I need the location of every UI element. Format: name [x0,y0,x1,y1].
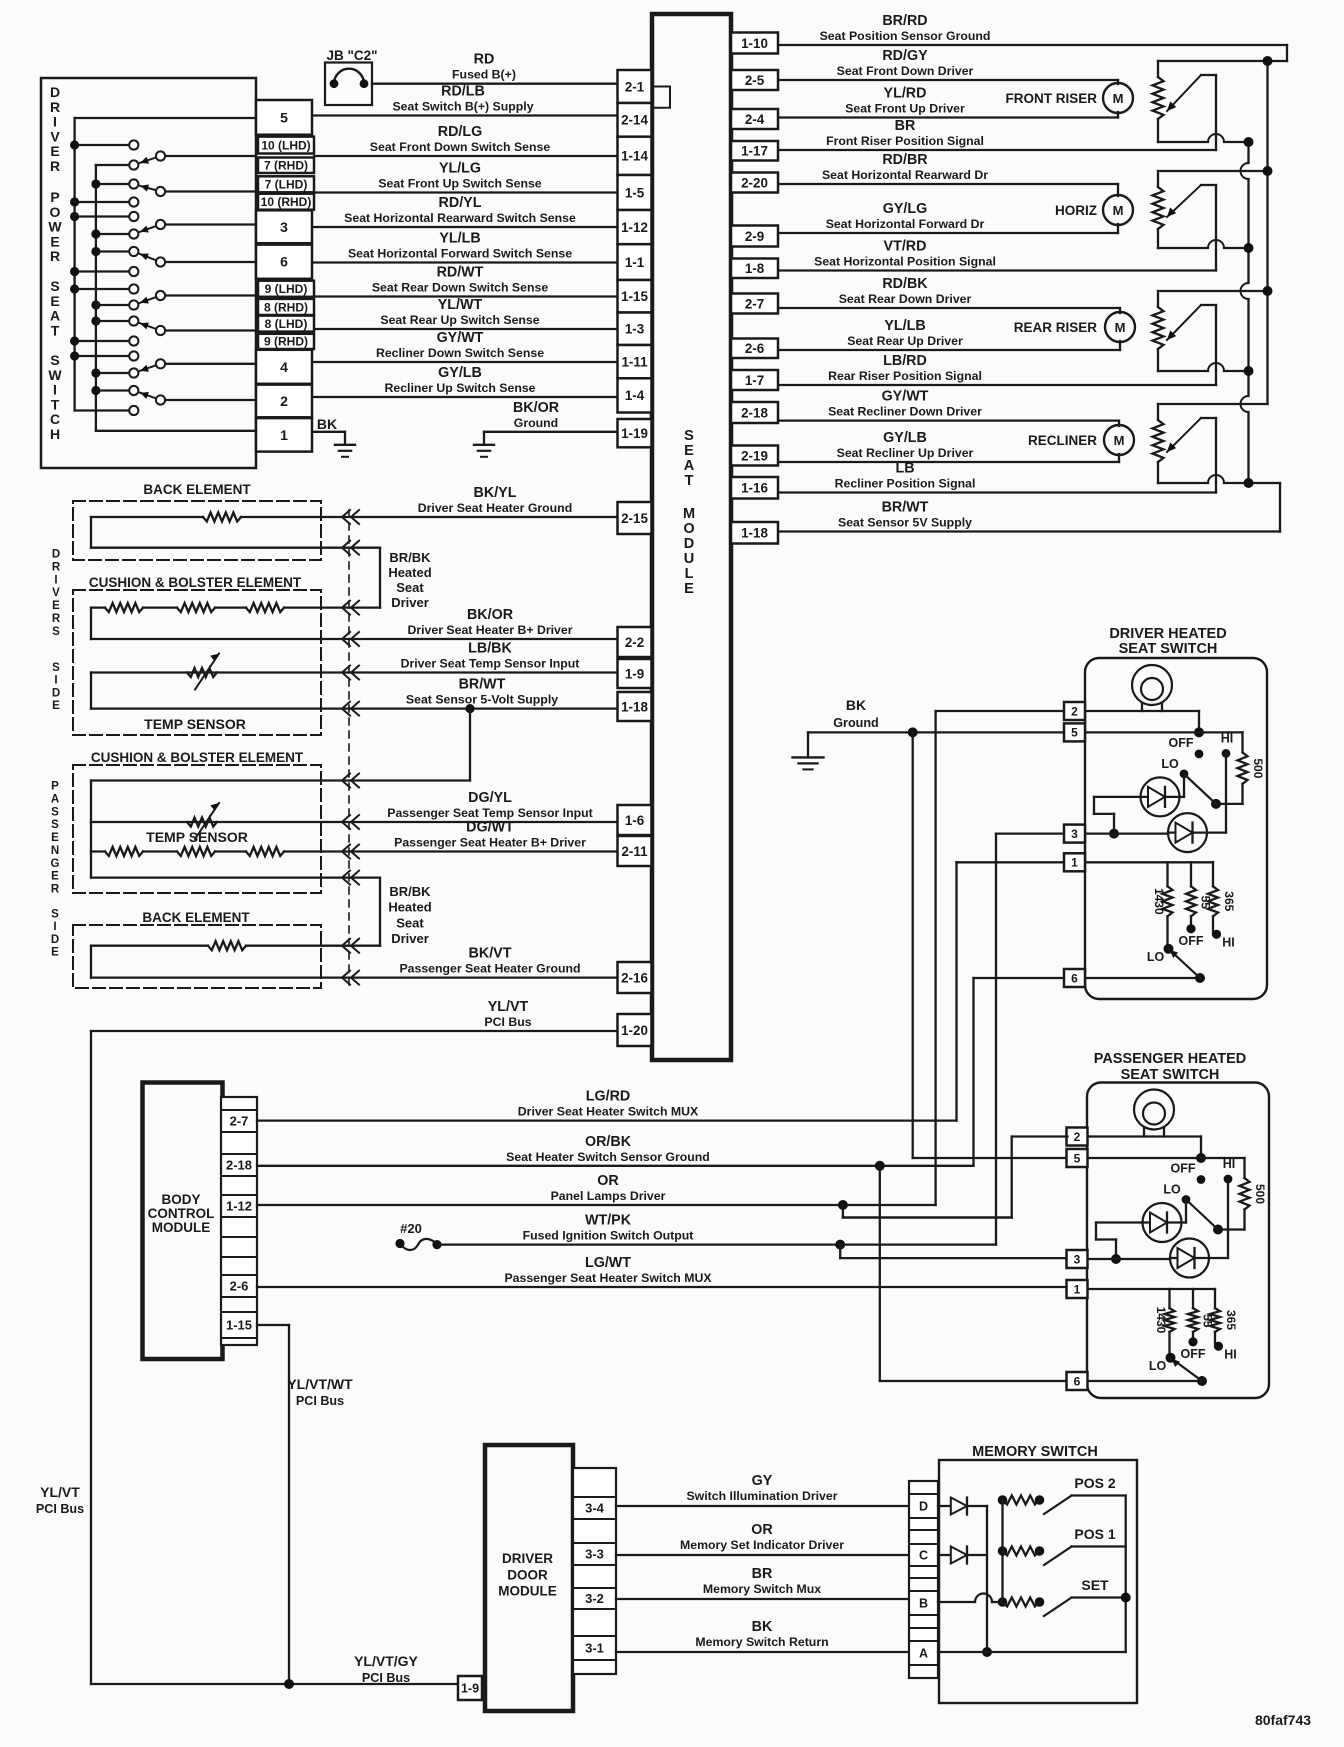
svg-text:TEMP SENSOR: TEMP SENSOR [144,716,246,732]
svg-text:SEAT SWITCH: SEAT SWITCH [1119,641,1218,657]
svg-text:1-16: 1-16 [741,481,768,496]
svg-text:Seat Sensor 5-Volt Supply: Seat Sensor 5-Volt Supply [406,693,558,707]
svg-text:Seat Horizontal Rearward Switc: Seat Horizontal Rearward Switch Sense [344,211,576,225]
svg-text:2-14: 2-14 [621,113,648,128]
svg-text:LB/BK: LB/BK [468,641,512,657]
svg-text:2-6: 2-6 [745,341,764,356]
svg-text:YL/LB: YL/LB [884,318,925,334]
svg-text:Passenger Seat Temp Sensor Inp: Passenger Seat Temp Sensor Input [387,806,592,820]
svg-text:OFF: OFF [1181,1347,1206,1361]
svg-text:Driver Seat Heater B+ Driver: Driver Seat Heater B+ Driver [407,623,572,637]
svg-text:Seat Horizontal Rearward Dr: Seat Horizontal Rearward Dr [822,168,988,182]
svg-text:2-16: 2-16 [621,970,648,985]
svg-text:2-4: 2-4 [745,112,765,127]
svg-text:PASSENGER HEATED: PASSENGER HEATED [1094,1051,1247,1067]
svg-text:Seat Horizontal Position Signa: Seat Horizontal Position Signal [814,255,996,269]
svg-text:80faf743: 80faf743 [1255,1712,1311,1728]
svg-text:1-15: 1-15 [226,1318,252,1333]
svg-text:E: E [684,581,694,597]
svg-text:Panel Lamps Driver: Panel Lamps Driver [551,1189,666,1203]
svg-text:2-7: 2-7 [230,1114,249,1129]
svg-text:1-10: 1-10 [741,36,768,51]
svg-text:RD/BK: RD/BK [882,276,928,292]
svg-text:3-1: 3-1 [585,1641,604,1656]
svg-text:A: A [51,793,59,805]
svg-text:RD/LG: RD/LG [438,124,482,140]
svg-text:LO: LO [1149,1359,1167,1373]
svg-text:GY/LG: GY/LG [883,201,927,217]
svg-text:T: T [685,473,694,489]
svg-text:MODULE: MODULE [152,1220,211,1235]
svg-text:JB "C2": JB "C2" [326,48,377,63]
svg-text:YL/LB: YL/LB [439,231,480,247]
svg-text:HI: HI [1223,1157,1236,1171]
svg-text:D: D [52,549,60,561]
svg-text:R: R [50,248,60,264]
svg-text:RD/WT: RD/WT [437,265,484,281]
svg-text:PCI Bus: PCI Bus [484,1015,531,1029]
svg-text:6: 6 [1071,971,1078,985]
svg-text:BR/WT: BR/WT [882,500,929,516]
svg-text:Memory Switch Return: Memory Switch Return [695,1635,828,1649]
svg-text:SEAT SWITCH: SEAT SWITCH [1121,1067,1220,1083]
svg-text:I: I [53,114,57,130]
svg-text:2-18: 2-18 [741,405,768,420]
svg-text:Seat Position Sensor Ground: Seat Position Sensor Ground [820,29,991,43]
svg-text:Fused B(+): Fused B(+) [452,68,516,82]
svg-text:PCI Bus: PCI Bus [36,1502,84,1516]
svg-text:2-5: 2-5 [745,73,765,88]
svg-text:Seat Rear Down Switch Sense: Seat Rear Down Switch Sense [372,281,548,295]
svg-text:A: A [50,308,60,324]
svg-text:Seat Recliner Up Driver: Seat Recliner Up Driver [837,446,974,460]
svg-text:2-2: 2-2 [625,635,644,650]
svg-text:C: C [50,411,60,427]
svg-text:2-9: 2-9 [745,229,764,244]
svg-text:PCI Bus: PCI Bus [296,1394,344,1408]
svg-text:DRIVER HEATED: DRIVER HEATED [1109,626,1226,642]
svg-text:R: R [50,99,60,115]
svg-text:O: O [50,204,61,220]
svg-text:E: E [50,233,59,249]
svg-text:S: S [51,819,59,831]
svg-text:Driver: Driver [391,595,429,610]
svg-text:M: M [1115,320,1126,335]
svg-text:10 (RHD): 10 (RHD) [261,195,312,209]
svg-text:S: S [50,278,59,294]
svg-text:YL/RD: YL/RD [884,86,927,102]
svg-text:Seat Front Down Driver: Seat Front Down Driver [837,64,974,78]
svg-text:YL/LG: YL/LG [439,161,481,177]
svg-text:E: E [52,600,60,612]
svg-text:W: W [48,367,62,383]
svg-text:YL/VT/WT: YL/VT/WT [287,1376,353,1392]
svg-text:2-18: 2-18 [226,1158,252,1173]
svg-text:HI: HI [1221,731,1234,745]
svg-text:3: 3 [280,219,288,235]
svg-text:V: V [50,128,60,144]
svg-text:S: S [51,909,59,921]
svg-text:Memory Set Indicator Driver: Memory Set Indicator Driver [680,1538,844,1552]
svg-text:365: 365 [1224,1310,1238,1330]
svg-text:6: 6 [1074,1374,1081,1388]
svg-text:O: O [683,521,694,537]
svg-text:D: D [50,84,60,100]
svg-text:LG/RD: LG/RD [586,1089,630,1105]
svg-text:1-5: 1-5 [625,185,645,200]
svg-text:BK/OR: BK/OR [467,607,514,623]
svg-text:D: D [51,934,59,946]
svg-text:1-11: 1-11 [621,354,648,369]
svg-text:LO: LO [1147,950,1165,964]
svg-text:M: M [683,506,695,522]
svg-text:1-18: 1-18 [621,699,648,714]
svg-text:1-15: 1-15 [621,289,648,304]
svg-text:RD: RD [474,52,495,68]
svg-text:BR: BR [752,1566,773,1582]
svg-text:8 (LHD): 8 (LHD) [265,317,308,331]
svg-text:Seat: Seat [396,580,424,595]
svg-text:1-19: 1-19 [621,426,648,441]
svg-text:YL/WT: YL/WT [438,297,483,313]
svg-text:BK/VT: BK/VT [469,946,512,962]
svg-text:YL/VT/GY: YL/VT/GY [354,1653,418,1669]
svg-text:BACK ELEMENT: BACK ELEMENT [143,482,251,497]
svg-text:3-4: 3-4 [585,1501,605,1516]
svg-text:1-12: 1-12 [621,220,648,235]
svg-text:BR/BK: BR/BK [389,550,431,565]
svg-text:I: I [54,574,57,586]
svg-text:1430: 1430 [1154,1307,1168,1334]
svg-text:I: I [53,382,57,398]
svg-text:E: E [51,947,59,959]
svg-text:Memory Switch Mux: Memory Switch Mux [703,1582,821,1596]
svg-text:R: R [51,884,60,896]
svg-text:CUSHION & BOLSTER ELEMENT: CUSHION & BOLSTER ELEMENT [91,750,304,765]
svg-text:POS 2: POS 2 [1074,1475,1115,1491]
svg-text:1-1: 1-1 [625,255,645,270]
svg-text:OFF: OFF [1171,1162,1196,1176]
svg-text:BR/WT: BR/WT [459,677,506,693]
svg-text:Passenger Seat Heater B+ Drive: Passenger Seat Heater B+ Driver [394,836,586,850]
svg-text:R: R [52,613,61,625]
svg-text:S: S [684,428,694,444]
svg-text:CUSHION & BOLSTER ELEMENT: CUSHION & BOLSTER ELEMENT [89,575,302,590]
svg-text:T: T [51,322,60,338]
svg-text:A: A [684,458,695,474]
svg-text:Recliner Up Switch Sense: Recliner Up Switch Sense [384,381,535,395]
svg-text:BACK ELEMENT: BACK ELEMENT [142,910,250,925]
svg-text:RD/BR: RD/BR [882,152,928,168]
svg-text:Driver Seat Temp Sensor Input: Driver Seat Temp Sensor Input [401,657,580,671]
svg-text:P: P [50,189,59,205]
svg-text:2-19: 2-19 [741,448,768,463]
svg-text:4: 4 [280,359,288,375]
svg-text:Seat Rear Up Switch Sense: Seat Rear Up Switch Sense [380,313,539,327]
svg-text:1: 1 [1074,1282,1081,1296]
svg-text:WT/PK: WT/PK [585,1213,632,1229]
svg-text:5: 5 [1071,726,1078,740]
svg-text:Front Riser Position Signal: Front Riser Position Signal [826,134,984,148]
svg-text:Heated: Heated [388,900,431,915]
svg-text:RD/GY: RD/GY [882,48,928,64]
svg-text:REAR RISER: REAR RISER [1014,320,1098,335]
svg-text:Seat Front Up Switch Sense: Seat Front Up Switch Sense [378,177,541,191]
svg-text:2-11: 2-11 [621,844,648,859]
svg-text:1-12: 1-12 [226,1199,252,1214]
svg-text:3: 3 [1071,827,1078,841]
svg-text:R: R [52,561,61,573]
svg-text:2-6: 2-6 [230,1279,249,1294]
svg-text:POS 1: POS 1 [1074,1526,1115,1542]
svg-text:#20: #20 [400,1221,422,1236]
svg-text:Driver: Driver [391,931,429,946]
svg-text:2: 2 [280,393,288,409]
svg-text:I: I [53,921,56,933]
svg-text:Seat Front Up Driver: Seat Front Up Driver [845,102,965,116]
svg-text:7 (RHD): 7 (RHD) [264,159,308,173]
svg-text:HORIZ: HORIZ [1055,203,1097,218]
svg-text:L: L [685,566,694,582]
svg-text:BK: BK [846,697,866,713]
svg-text:BK/YL: BK/YL [474,485,517,501]
svg-text:9 (LHD): 9 (LHD) [265,282,308,296]
svg-text:Rear Riser Position Signal: Rear Riser Position Signal [828,369,982,383]
svg-text:M: M [1114,433,1125,448]
svg-text:Fused Ignition Switch Output: Fused Ignition Switch Output [523,1229,694,1243]
svg-text:Seat Horizontal Forward Switch: Seat Horizontal Forward Switch Sense [348,247,572,261]
svg-text:1430: 1430 [1152,888,1166,915]
svg-text:365: 365 [1222,891,1236,911]
svg-text:LB/RD: LB/RD [883,353,927,369]
svg-text:DOOR: DOOR [507,1568,548,1583]
svg-text:OFF: OFF [1169,736,1194,750]
svg-text:Driver Seat Heater Ground: Driver Seat Heater Ground [418,501,572,515]
svg-text:Seat Switch B(+) Supply: Seat Switch B(+) Supply [392,100,533,114]
svg-text:D: D [684,536,694,552]
svg-text:U: U [684,551,694,567]
svg-text:LO: LO [1163,1183,1181,1197]
svg-text:GY/WT: GY/WT [882,389,929,405]
svg-text:N: N [51,845,59,857]
svg-text:5: 5 [1074,1151,1081,1165]
svg-text:H: H [50,426,60,442]
svg-text:1: 1 [280,427,288,443]
svg-text:10 (LHD): 10 (LHD) [261,138,310,152]
svg-text:7 (LHD): 7 (LHD) [265,178,308,192]
svg-text:DG/YL: DG/YL [468,790,512,806]
svg-text:W: W [48,219,62,235]
svg-text:1-9: 1-9 [461,1682,479,1696]
svg-text:GY/LB: GY/LB [438,365,482,381]
svg-text:GY/LB: GY/LB [883,430,927,446]
svg-text:3-3: 3-3 [585,1547,604,1562]
svg-text:S: S [50,352,59,368]
svg-text:M: M [1113,203,1124,218]
svg-text:OR: OR [751,1522,773,1538]
svg-text:E: E [51,871,59,883]
svg-text:9 (RHD): 9 (RHD) [264,335,308,349]
svg-text:D: D [919,1500,928,1514]
svg-text:S: S [51,806,59,818]
svg-text:2: 2 [1071,704,1078,718]
svg-text:R: R [50,158,60,174]
svg-text:Seat Recliner Down Driver: Seat Recliner Down Driver [828,405,982,419]
svg-text:M: M [1113,91,1124,106]
svg-text:1-9: 1-9 [625,666,644,681]
svg-text:3-2: 3-2 [585,1591,604,1606]
svg-text:1-4: 1-4 [625,388,645,403]
svg-text:V: V [52,587,60,599]
svg-text:LB: LB [895,461,914,477]
svg-text:E: E [50,293,59,309]
svg-text:RD/LB: RD/LB [441,84,485,100]
svg-text:E: E [52,700,60,712]
svg-text:VT/RD: VT/RD [884,239,927,255]
svg-text:1-6: 1-6 [625,813,644,828]
svg-text:BK: BK [752,1619,773,1635]
svg-text:2-1: 2-1 [625,79,645,94]
svg-text:DRIVER: DRIVER [502,1551,553,1566]
svg-text:BK: BK [317,416,337,432]
svg-text:P: P [51,781,59,793]
svg-text:Ground: Ground [833,716,878,730]
svg-text:Seat Sensor 5V Supply: Seat Sensor 5V Supply [838,516,972,530]
svg-text:GY: GY [752,1473,773,1489]
svg-text:Seat Front Down Switch Sense: Seat Front Down Switch Sense [370,140,551,154]
svg-text:Switch Illumination Driver: Switch Illumination Driver [686,1489,837,1503]
svg-text:S: S [52,662,60,674]
svg-text:B: B [919,1597,928,1611]
svg-text:Recliner Down Switch Sense: Recliner Down Switch Sense [376,346,544,360]
svg-text:Recliner Position Signal: Recliner Position Signal [835,477,976,491]
svg-text:Seat: Seat [396,915,424,930]
svg-text:55: 55 [1199,896,1213,910]
svg-text:E: E [684,443,694,459]
svg-text:YL/VT: YL/VT [488,999,529,1015]
svg-text:OR: OR [597,1173,619,1189]
svg-text:3: 3 [1074,1252,1081,1266]
svg-text:RD/YL: RD/YL [439,195,482,211]
svg-text:LO: LO [1161,757,1179,771]
svg-text:HI: HI [1222,935,1235,949]
svg-text:G: G [51,858,60,870]
svg-text:DG/WT: DG/WT [466,820,514,836]
svg-text:BODY: BODY [161,1192,200,1207]
svg-text:RECLINER: RECLINER [1028,433,1097,448]
svg-text:Seat Horizontal Forward Dr: Seat Horizontal Forward Dr [826,217,985,231]
svg-text:OFF: OFF [1179,934,1204,948]
svg-text:Seat Heater Switch Sensor Grou: Seat Heater Switch Sensor Ground [506,1150,710,1164]
svg-text:S: S [52,626,60,638]
svg-text:MEMORY SWITCH: MEMORY SWITCH [972,1444,1098,1460]
svg-text:55: 55 [1201,1314,1215,1328]
svg-text:Seat Rear Down Driver: Seat Rear Down Driver [839,292,972,306]
svg-text:BR/RD: BR/RD [882,13,927,29]
svg-text:FRONT RISER: FRONT RISER [1005,91,1097,106]
svg-text:5: 5 [280,109,288,125]
svg-text:GY/WT: GY/WT [437,330,484,346]
svg-text:Passenger Seat Heater Switch M: Passenger Seat Heater Switch MUX [504,1271,712,1285]
svg-text:BR/BK: BR/BK [389,884,431,899]
svg-text:2: 2 [1074,1130,1081,1144]
svg-text:HI: HI [1224,1347,1237,1361]
svg-text:T: T [51,396,60,412]
svg-text:2-15: 2-15 [621,511,648,526]
svg-text:E: E [51,832,59,844]
svg-text:E: E [50,143,59,159]
svg-text:500: 500 [1253,1184,1267,1204]
svg-text:LG/WT: LG/WT [585,1255,631,1271]
svg-text:6: 6 [280,254,288,270]
svg-text:1-20: 1-20 [621,1023,648,1038]
svg-text:PCI Bus: PCI Bus [362,1671,410,1685]
svg-text:1-7: 1-7 [745,373,764,388]
svg-text:Ground: Ground [514,416,558,430]
svg-text:MODULE: MODULE [498,1584,557,1599]
svg-text:BK/OR: BK/OR [513,400,560,416]
svg-text:CONTROL: CONTROL [148,1206,215,1221]
svg-text:D: D [52,687,60,699]
svg-text:I: I [54,675,57,687]
svg-text:BR: BR [895,118,916,134]
svg-text:A: A [919,1647,928,1661]
svg-text:1-8: 1-8 [745,261,765,276]
svg-text:Driver Seat Heater Switch MUX: Driver Seat Heater Switch MUX [518,1105,699,1119]
svg-text:OR/BK: OR/BK [585,1134,632,1150]
svg-text:2-20: 2-20 [741,175,768,190]
svg-text:YL/VT: YL/VT [40,1484,80,1500]
svg-text:500: 500 [1251,758,1265,778]
svg-text:1-17: 1-17 [741,144,768,159]
svg-text:1-14: 1-14 [621,149,648,164]
svg-text:1: 1 [1071,856,1078,870]
svg-text:Seat Rear Up Driver: Seat Rear Up Driver [847,334,963,348]
svg-text:1-18: 1-18 [741,526,768,541]
svg-text:Passenger Seat Heater Ground: Passenger Seat Heater Ground [399,962,580,976]
svg-text:C: C [919,1549,928,1563]
svg-text:Heated: Heated [388,565,431,580]
svg-text:SET: SET [1081,1577,1109,1593]
svg-text:2-7: 2-7 [745,296,764,311]
svg-text:8 (RHD): 8 (RHD) [264,300,308,314]
svg-text:1-3: 1-3 [625,322,644,337]
